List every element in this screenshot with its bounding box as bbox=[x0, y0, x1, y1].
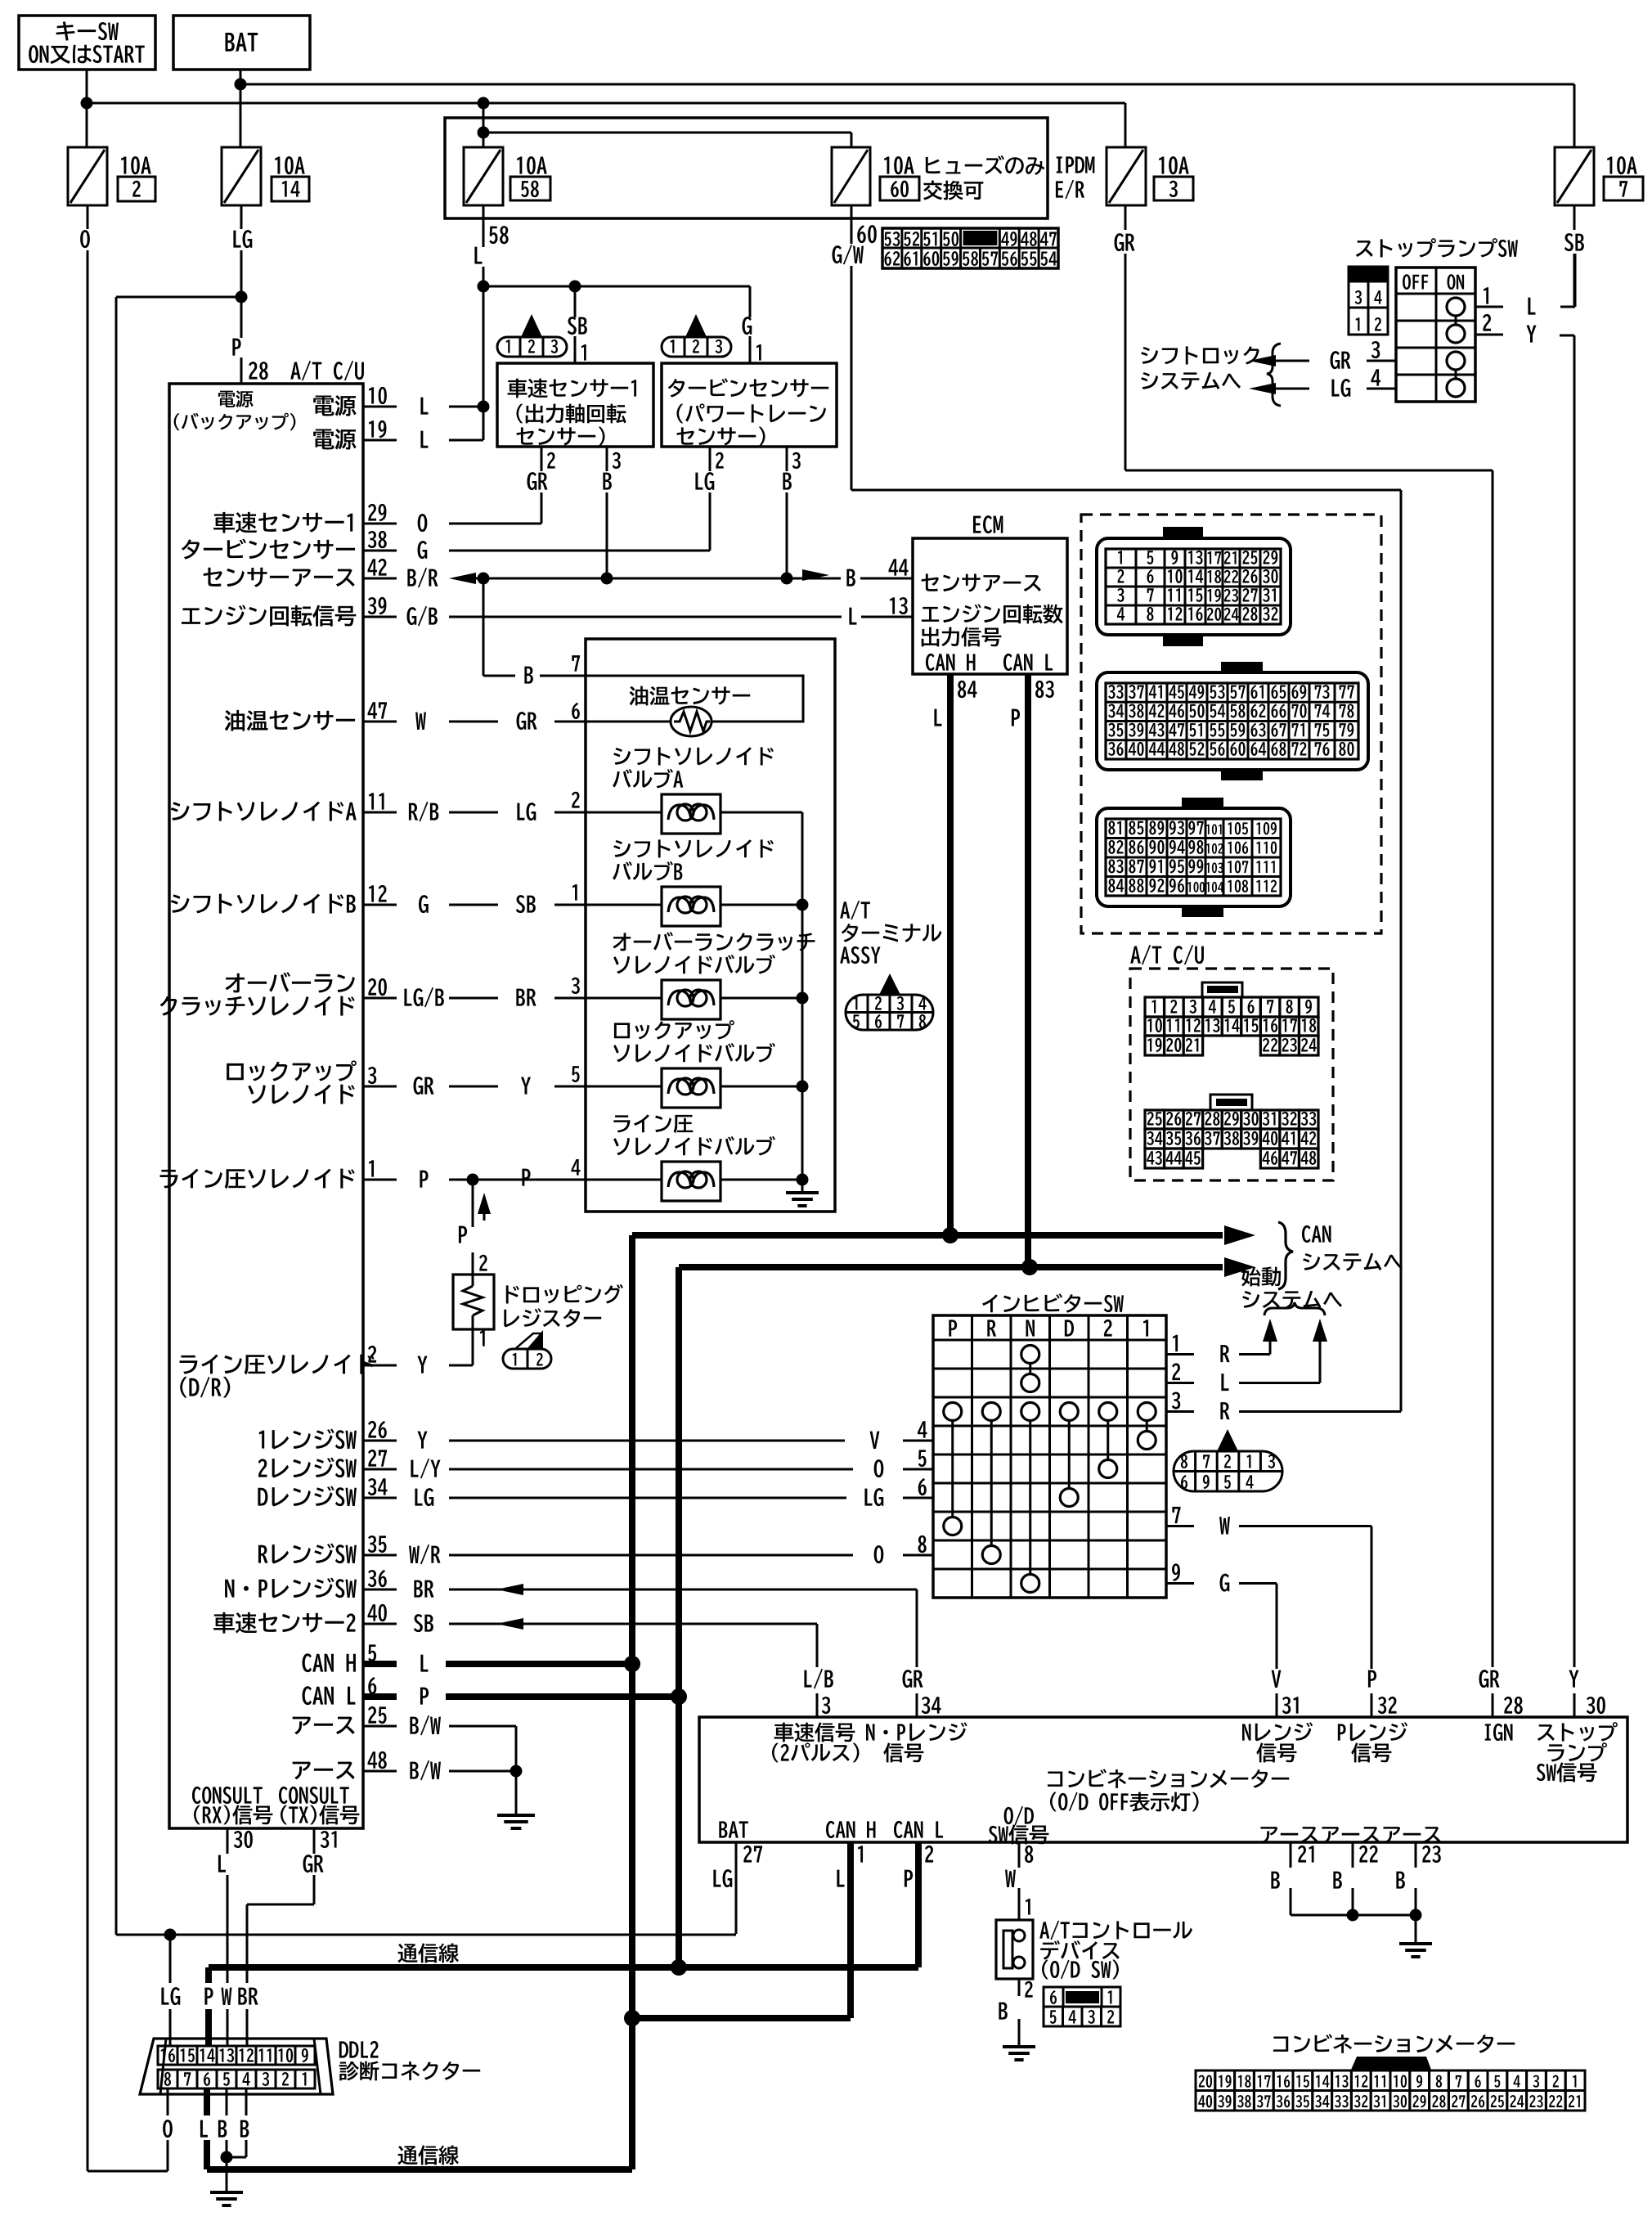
wire pin26 Y-V bbox=[417, 1421, 933, 1449]
connector oval turbine bbox=[662, 314, 731, 357]
A/T C/U box bbox=[169, 384, 363, 1828]
label 車速信号 bbox=[772, 1722, 860, 1762]
ground meter bbox=[1399, 1915, 1432, 1957]
label SB bbox=[568, 317, 587, 335]
stop lamp pin3 bbox=[1249, 341, 1396, 369]
wire B below DDL2 pin4 bbox=[227, 2088, 249, 2157]
solenoid valve row 2 bbox=[409, 747, 802, 834]
label B/R bbox=[407, 568, 438, 588]
thermistor symbol bbox=[671, 707, 712, 736]
wire O below DDL2 bbox=[88, 2088, 173, 2171]
fuse F60 10A bbox=[832, 147, 919, 205]
pin 10 電源 bbox=[313, 387, 397, 416]
power source box BAT bbox=[173, 16, 310, 70]
label pin1 sensor1 bbox=[581, 344, 586, 361]
wire CAN-L bus bbox=[679, 1259, 1223, 1967]
wire pin40 SB bbox=[414, 1614, 817, 1632]
wire to fuse 3 bbox=[1125, 103, 1127, 147]
wire pin47 W-GR bbox=[415, 703, 586, 730]
pin 26 1レンジSW bbox=[259, 1421, 397, 1450]
pin 19 電源 bbox=[313, 420, 397, 450]
wire sensor1 pin2 GR bbox=[527, 447, 555, 524]
DDL2 connector outline bbox=[140, 2039, 333, 2094]
ground DDL2 bbox=[210, 2192, 243, 2205]
junction fuse14 branch bbox=[236, 291, 248, 303]
wire to fuse 7 bbox=[1573, 84, 1576, 147]
wire GR from fuse3 bbox=[1125, 205, 1127, 470]
label N・Pレンジ信号 bbox=[866, 1722, 967, 1762]
wire branch left bbox=[116, 297, 241, 1935]
label コンビネーションメーター bbox=[1048, 1769, 1289, 1811]
label P ddl2 bbox=[204, 1988, 213, 2005]
arrow up P bbox=[478, 1193, 491, 1221]
IPDM E/R box bbox=[445, 118, 1048, 218]
wire sensor1 pin3 B bbox=[603, 447, 620, 578]
wire IPDM internal bus bbox=[483, 133, 851, 147]
label ストップランプSW bbox=[1356, 238, 1518, 257]
fuse F3 10A bbox=[1107, 147, 1193, 205]
wire L from fuse58 bbox=[483, 205, 485, 440]
label 58 pin bbox=[489, 226, 508, 244]
wire pin35 W/R-O bbox=[409, 1535, 933, 1565]
junction B/R 2 bbox=[601, 573, 613, 585]
arrow CAN-L bbox=[1224, 1257, 1255, 1277]
wire 通信線 upper thick bbox=[209, 1959, 918, 2046]
junction BAT line bbox=[235, 79, 247, 91]
label 60 pin bbox=[857, 225, 877, 243]
pin 27 2レンジSW bbox=[258, 1450, 397, 1478]
wire pin29 O bbox=[418, 514, 541, 532]
inhibitor contact circles bbox=[944, 1346, 1156, 1593]
meter pin2 CAN-L bbox=[905, 1842, 933, 1967]
label LG bbox=[233, 230, 252, 248]
meter pin32 P bbox=[1368, 1670, 1397, 1714]
label ストップランプSW信号 bbox=[1537, 1722, 1618, 1782]
junction B/R 1 bbox=[478, 573, 490, 585]
A/T C/U connector B 25-48 bbox=[1145, 1110, 1318, 1168]
A/T C/U connector A tab bbox=[1202, 982, 1242, 997]
wire engine speed G/B L bbox=[449, 608, 884, 625]
stop lamp pin4 bbox=[1249, 369, 1396, 397]
brace shift lock bbox=[1267, 344, 1281, 406]
arrow CAN-H bbox=[1224, 1225, 1255, 1245]
wire B below DDL2 pin5 bbox=[218, 2088, 233, 2191]
connector mini grid stop lamp bbox=[1349, 267, 1388, 335]
pin 12 シフトソレノイドB bbox=[171, 885, 397, 914]
label IPDM E/R bbox=[1056, 156, 1094, 199]
wire CAN-H bus bbox=[632, 1227, 1223, 2169]
pin 30 CONSULT RX bbox=[227, 1828, 253, 1854]
combination meter box bbox=[699, 1717, 1627, 1842]
solenoid ground rail bbox=[797, 812, 809, 1186]
O/D switch box bbox=[996, 1920, 1033, 1979]
inhibitor pin1 R bbox=[1166, 1335, 1270, 1362]
wire 通信線 lower thick bbox=[207, 2166, 632, 2173]
meter pin22 B bbox=[1333, 1842, 1377, 1915]
meter pin28 GR bbox=[1504, 1697, 1523, 1714]
pin 31 CONSULT TX bbox=[314, 1828, 337, 1854]
junction key-SW line bbox=[81, 97, 93, 110]
ECM CAN labels bbox=[926, 654, 1053, 671]
fuse F58 10A bbox=[464, 147, 550, 205]
meter pin31 V bbox=[1272, 1670, 1299, 1714]
label O/D SW信号 bbox=[989, 1806, 1049, 1845]
label ドロッピングレジスター bbox=[504, 1284, 623, 1328]
box turbine sensor bbox=[662, 363, 837, 447]
wire turbine pin2 LG bbox=[695, 447, 723, 551]
meter pin23 B bbox=[1396, 1842, 1440, 1915]
wire pin5 CAN-H thick bbox=[363, 1655, 640, 1672]
pin 25 アース bbox=[293, 1706, 397, 1734]
label SB wire bbox=[1564, 233, 1584, 251]
connector oval resistor bbox=[503, 1330, 551, 1369]
wire GR fuse3 to meter bbox=[1125, 470, 1500, 1717]
arrow up start2 bbox=[1313, 1319, 1327, 1383]
pin 36 N・PレンジSW bbox=[225, 1570, 397, 1598]
oil temp sensor inner box bbox=[586, 676, 803, 722]
A/T C/U connector B tab bbox=[1210, 1095, 1252, 1110]
wire pin38 G bbox=[418, 541, 710, 559]
label シフトロックシステムへ bbox=[1141, 346, 1259, 389]
dropping resistor bbox=[453, 1275, 494, 1329]
wire LG to DDL2 bbox=[161, 1935, 180, 2046]
wire SB from fuse7 bbox=[1573, 205, 1576, 306]
pin 6 CAN L bbox=[303, 1677, 397, 1705]
wire B elbow oil temp bbox=[483, 578, 586, 684]
meter pin1 CAN-H bbox=[837, 1842, 863, 2018]
meter pin8 W bbox=[1005, 1842, 1033, 1898]
wire R to fuse60 feed bbox=[851, 490, 1401, 1412]
pin 1 ライン圧ソレノイド bbox=[160, 1160, 397, 1189]
ECM connector 1-32 bbox=[1097, 527, 1291, 646]
ECM pin 44 bbox=[884, 559, 1041, 591]
label L wire bbox=[474, 247, 482, 264]
wire pin6 CAN-L thick bbox=[363, 1688, 687, 1705]
junction fuse58 tap bbox=[478, 97, 490, 148]
meter pin30 Y bbox=[1569, 1670, 1605, 1715]
label BAT meter bbox=[719, 1821, 747, 1837]
connector grid O/D switch bbox=[1044, 1987, 1120, 2026]
pin 39 エンジン回転信号 bbox=[182, 597, 397, 627]
solenoid valve row 3 bbox=[404, 932, 815, 1019]
wire L below DDL2 thick bbox=[200, 2088, 208, 2169]
pin 40 車速センサー2 bbox=[213, 1604, 397, 1634]
fuse F2 10A bbox=[68, 147, 155, 205]
stop lamp switch table bbox=[1396, 268, 1475, 402]
connector grid IPDM 47-62 bbox=[882, 228, 1058, 268]
meter pin27 LG bbox=[713, 1842, 762, 1934]
wire pin19 L bbox=[420, 431, 483, 448]
junction sensor feed bbox=[478, 281, 581, 293]
wire O from fuse2 bbox=[87, 205, 89, 2171]
A/T C/U connector A 1-24 bbox=[1145, 997, 1318, 1055]
label CONSULT RX/TX bbox=[192, 1787, 359, 1824]
connector grid meter 1-40 bbox=[1196, 2057, 1585, 2111]
inhibitor contact links bbox=[953, 1364, 1147, 1575]
label 28 A/T C/U bbox=[249, 361, 364, 381]
meter pin21 B bbox=[1271, 1842, 1313, 1915]
label DDL2 bbox=[339, 2041, 481, 2081]
label W ddl2 bbox=[222, 1988, 232, 2005]
box speed sensor 1 bbox=[497, 363, 653, 447]
pin 48 アース bbox=[293, 1751, 397, 1779]
wire SB elbow bbox=[1560, 254, 1575, 307]
connector oval sensor1 bbox=[497, 314, 567, 357]
label fuse-only note bbox=[923, 155, 1044, 200]
wire turbine pin3 B bbox=[783, 447, 800, 578]
A/T C/U connector dashed box bbox=[1130, 969, 1333, 1180]
junction CAN-H meter bbox=[624, 2010, 640, 2026]
inhibitor pin2 L bbox=[1166, 1363, 1320, 1391]
wire sensor ground B/R bbox=[476, 578, 884, 580]
ground B/W bbox=[497, 1771, 535, 1828]
label G bbox=[743, 317, 752, 335]
fuse F14 10A bbox=[222, 147, 309, 205]
pin 3 ロックアップソレノイド bbox=[227, 1060, 397, 1104]
brace CAN bbox=[1278, 1222, 1293, 1289]
label 始動システムへ bbox=[1241, 1267, 1342, 1309]
brace 始動 bbox=[1264, 1302, 1325, 1315]
inhibitor pin3 R bbox=[1166, 1392, 1401, 1419]
wire CAN-H meter link bbox=[632, 2015, 851, 2021]
label 2 resistor bbox=[479, 1255, 487, 1271]
pin 29 車速センサー1 bbox=[213, 504, 397, 533]
label A/T terminal assy bbox=[840, 901, 941, 964]
wire pin27 L/Y-O bbox=[411, 1450, 933, 1478]
wire W to OD switch bbox=[1019, 1898, 1030, 1920]
ground solenoid bbox=[786, 1180, 819, 1206]
wire OD pin2 B bbox=[999, 1979, 1032, 2047]
wire Y down bbox=[1560, 335, 1574, 1717]
solenoid valve row 5 bbox=[414, 1020, 802, 1108]
meter pin34 GR bbox=[903, 1589, 941, 1717]
ECM pin 13 bbox=[884, 597, 1063, 646]
inhibitor pin7 W bbox=[1166, 1507, 1371, 1717]
pin 47 油温センサー bbox=[225, 702, 397, 731]
inhibitor switch table bbox=[933, 1315, 1166, 1598]
ECM connector 33-80 bbox=[1097, 662, 1368, 780]
pin 42 センサーアース bbox=[204, 559, 397, 587]
wire ECM CAN-L thick bbox=[1012, 674, 1054, 1267]
power source box key-SW bbox=[19, 16, 155, 70]
wire key-SW bus bbox=[87, 102, 1125, 105]
wire BAT down bbox=[240, 70, 242, 147]
fuse F7 10A bbox=[1555, 147, 1643, 205]
wire meter grounds join bbox=[1291, 1909, 1422, 1922]
wire pin34 LG-LG bbox=[415, 1478, 933, 1506]
stop lamp pin2 bbox=[1475, 314, 1537, 343]
pin 5 CAN H bbox=[303, 1644, 397, 1672]
wire BAT bus bbox=[240, 83, 1574, 86]
wire pin2 Y bbox=[417, 1329, 473, 1374]
pin 20 オーバーランクラッチソレノイド bbox=[160, 972, 397, 1015]
label CANシステムへ bbox=[1302, 1225, 1403, 1271]
label 通信線 lower bbox=[397, 2145, 458, 2165]
label P wire bbox=[232, 339, 240, 356]
pin 35 RレンジSW bbox=[258, 1535, 397, 1564]
A/T C/U connector label bbox=[1130, 945, 1204, 965]
arrow right to ECM bbox=[802, 569, 829, 581]
A/T terminal assy box bbox=[586, 639, 835, 1212]
junction B/R 3 bbox=[781, 573, 793, 585]
label Pレンジ信号 bbox=[1338, 1722, 1407, 1762]
wire pin10 L bbox=[420, 398, 489, 415]
arrow up start1 bbox=[1263, 1319, 1277, 1355]
wire SB to sensor1 bbox=[574, 286, 577, 363]
label Nレンジ信号 bbox=[1242, 1722, 1313, 1762]
ECM connector 81-112 bbox=[1097, 798, 1291, 917]
label CAN H meter bbox=[826, 1821, 876, 1838]
ECM box bbox=[913, 515, 1067, 674]
pin 11 シフトソレノイドA bbox=[171, 793, 397, 821]
ECM connector dashed box bbox=[1081, 515, 1381, 933]
label pin1 turbine bbox=[756, 344, 761, 361]
wire G/W from fuse60 bbox=[851, 205, 853, 490]
wire pin25 B/W bbox=[410, 1715, 516, 1771]
pin 38 タービンセンサー bbox=[182, 531, 397, 560]
label 電源(バックアップ) bbox=[174, 390, 296, 430]
label IGN bbox=[1485, 1724, 1513, 1741]
label G/W wire bbox=[833, 245, 864, 265]
wire sensor feed bus bbox=[483, 285, 750, 288]
label BR ddl2 bbox=[238, 1988, 258, 2005]
wire LG from fuse14 bbox=[240, 205, 243, 384]
label 通信線 upper bbox=[397, 1943, 458, 1962]
wire pin36 BR bbox=[414, 1580, 917, 1598]
ground OD switch bbox=[1003, 2047, 1035, 2060]
arrow left pin42 bbox=[449, 573, 476, 584]
wire GR consult bbox=[247, 1855, 324, 2046]
wire ECM CAN-H thick bbox=[934, 674, 976, 1235]
solenoid valve row 1 bbox=[419, 839, 802, 926]
label O bbox=[80, 230, 90, 248]
pin 34 DレンジSW bbox=[258, 1478, 397, 1507]
solenoid valve row 4 bbox=[420, 1114, 802, 1201]
wire P branch down bbox=[472, 1180, 474, 1275]
label アース x3 bbox=[1260, 1827, 1440, 1843]
wire key-SW down bbox=[86, 70, 88, 147]
label コンビネーションメーター2 bbox=[1273, 2034, 1515, 2053]
connector oval inhibitor bbox=[1174, 1429, 1282, 1491]
stop lamp pin1 bbox=[1475, 287, 1535, 314]
label B near ECM bbox=[846, 569, 855, 587]
wire BAT LG feed bbox=[116, 1929, 736, 1941]
connector oval A/T terminal bbox=[846, 973, 933, 1030]
wire G to turbine bbox=[749, 286, 752, 363]
pin 2 ライン圧ソレノイド(D/R) bbox=[180, 1346, 397, 1398]
wire L consult bbox=[218, 1855, 227, 2046]
wire pin48 B/W bbox=[410, 1760, 522, 1781]
label 1 resistor bbox=[480, 1330, 485, 1347]
label P bbox=[459, 1226, 467, 1243]
DDL2 pin grid bbox=[158, 2046, 315, 2088]
meter pin3 L/B bbox=[804, 1624, 833, 1717]
label インヒビターSW bbox=[982, 1293, 1124, 1312]
label CAN L meter bbox=[894, 1821, 943, 1838]
inhibitor pin9 G bbox=[1166, 1563, 1277, 1717]
label GR wire bbox=[1115, 233, 1135, 251]
label G/B bbox=[407, 606, 438, 627]
label A/Tコントロールデバイス bbox=[1039, 1921, 1192, 1980]
